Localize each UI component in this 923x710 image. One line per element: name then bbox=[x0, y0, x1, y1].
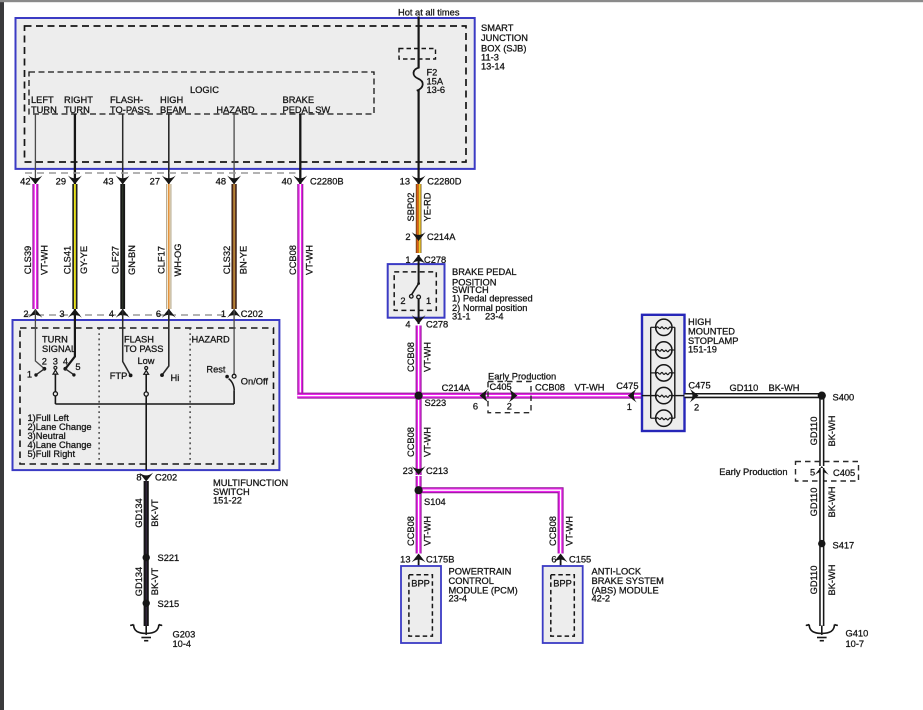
wire into turn signal contact 2 bbox=[35, 309, 44, 369]
connector C213 pin 23 bbox=[403, 466, 449, 476]
connector C155 pin 6 bbox=[551, 554, 591, 575]
svg-text:GN-BN: GN-BN bbox=[127, 245, 137, 275]
splice S104 bbox=[415, 486, 446, 507]
FTP contact bbox=[110, 371, 133, 381]
svg-text:4: 4 bbox=[405, 320, 410, 330]
brake pedal position switch box bbox=[388, 264, 445, 318]
svg-text:CCB08: CCB08 bbox=[406, 427, 416, 457]
svg-text:C202: C202 bbox=[241, 309, 263, 319]
connector C2280B pin 43 bbox=[103, 176, 129, 187]
svg-text:Hot at all times: Hot at all times bbox=[398, 8, 460, 18]
ground G203 bbox=[130, 625, 195, 650]
svg-text:6: 6 bbox=[473, 401, 478, 411]
svg-text:151-19: 151-19 bbox=[688, 345, 717, 355]
svg-text:CCB08: CCB08 bbox=[288, 245, 298, 275]
connector C278 pin 1 bbox=[405, 255, 446, 265]
connector C278 pin 4 bbox=[405, 315, 448, 329]
svg-text:VT-WH: VT-WH bbox=[422, 342, 432, 372]
connector C405 early production box bbox=[488, 372, 556, 413]
wire GD110 BK-WH C405 to S417 bbox=[809, 468, 837, 544]
svg-text:23-4: 23-4 bbox=[485, 312, 504, 322]
BPP switch arm and contacts bbox=[400, 282, 431, 324]
svg-text:23-4: 23-4 bbox=[449, 594, 468, 604]
svg-text:27: 27 bbox=[150, 177, 160, 187]
svg-text:C214A: C214A bbox=[442, 383, 471, 393]
svg-text:LEFT: LEFT bbox=[31, 95, 54, 105]
connector C2280B pin 27 bbox=[150, 176, 176, 187]
stoplamp name label bbox=[688, 317, 738, 355]
svg-text:40: 40 bbox=[282, 177, 292, 187]
connector C405 pin 2 arrow bbox=[509, 389, 518, 403]
svg-text:VT-WH: VT-WH bbox=[422, 516, 432, 546]
connector C214A pin 2 bbox=[405, 232, 456, 242]
svg-text:CCB08: CCB08 bbox=[406, 516, 416, 546]
svg-text:CONTROL: CONTROL bbox=[449, 576, 494, 586]
svg-text:1) Pedal depressed: 1) Pedal depressed bbox=[452, 294, 533, 304]
svg-text:On/Off: On/Off bbox=[241, 376, 269, 386]
wire CCB08 VT-WH brake pedal sw bbox=[288, 184, 314, 393]
svg-text:GD110: GD110 bbox=[809, 566, 819, 595]
svg-text:CCB08: CCB08 bbox=[535, 382, 565, 392]
wire hot feed into SJB bbox=[418, 17, 420, 68]
wire GD110 BK-WH S417 to ground bbox=[809, 544, 837, 626]
svg-text:43: 43 bbox=[103, 177, 113, 187]
svg-text:CCB08: CCB08 bbox=[548, 516, 558, 546]
svg-text:TO-PASS: TO-PASS bbox=[110, 105, 150, 115]
svg-text:C405: C405 bbox=[833, 468, 855, 478]
svg-text:S417: S417 bbox=[833, 541, 855, 551]
connector C2280B pin 42 bbox=[20, 176, 42, 187]
ABS name label bbox=[592, 567, 664, 604]
wire fuse output bbox=[418, 90, 420, 184]
connector C202 pin 4 bbox=[109, 309, 130, 319]
svg-text:48: 48 bbox=[216, 177, 226, 187]
wire GD110 BK-WH S400 down to C405 bbox=[809, 396, 837, 466]
svg-text:C278: C278 bbox=[426, 320, 448, 330]
wire CCB08 VT-WH BPP to S223 bbox=[406, 326, 433, 393]
wire CLF17 WH-OG high beam bbox=[156, 184, 182, 309]
svg-text:23: 23 bbox=[403, 466, 413, 476]
svg-text:BN-YE: BN-YE bbox=[238, 246, 248, 274]
svg-text:HAZARD: HAZARD bbox=[192, 334, 231, 344]
connector C475 pin 2 bbox=[688, 381, 710, 413]
wire CLF27 GN-BN flash-to-pass bbox=[110, 184, 136, 309]
connector C405 pin 5 early production bbox=[719, 462, 858, 482]
stoplamp bulb 2 bbox=[651, 342, 675, 358]
connector C2280B pin 29 bbox=[56, 176, 82, 187]
Hi contact bbox=[160, 373, 179, 383]
svg-text:WH-OG: WH-OG bbox=[173, 243, 183, 276]
wire flash-to-pass inside SJB bbox=[122, 114, 124, 184]
svg-text:PEDAL SW: PEDAL SW bbox=[283, 105, 331, 115]
connector C2280B pin 40 bbox=[282, 176, 344, 187]
splice S221 bbox=[143, 553, 180, 563]
svg-text:BRAKE: BRAKE bbox=[283, 95, 315, 105]
connector C202 dashed line bbox=[25, 314, 238, 316]
svg-text:1: 1 bbox=[426, 296, 431, 306]
svg-text:GY-YE: GY-YE bbox=[79, 246, 89, 274]
connector C175B pin 13 bbox=[400, 554, 454, 575]
svg-text:13: 13 bbox=[400, 555, 410, 565]
svg-text:TURN: TURN bbox=[31, 105, 57, 115]
svg-text:YE-RD: YE-RD bbox=[422, 192, 432, 221]
svg-text:HIGH: HIGH bbox=[160, 95, 183, 105]
svg-text:10-7: 10-7 bbox=[846, 639, 865, 649]
flash to pass pole Low bbox=[137, 356, 154, 470]
wire hazard inside SJB bbox=[233, 114, 235, 184]
svg-text:GD110: GD110 bbox=[809, 417, 819, 446]
svg-text:4: 4 bbox=[109, 309, 114, 319]
wire into BPP switch bbox=[418, 255, 420, 284]
svg-text:CLS32: CLS32 bbox=[222, 246, 232, 274]
svg-text:FTP: FTP bbox=[110, 371, 128, 381]
svg-text:CLS39: CLS39 bbox=[23, 246, 33, 274]
stoplamp bulb 3 bbox=[651, 365, 675, 381]
connector dashed block above fuse bbox=[399, 49, 436, 60]
svg-text:BPP: BPP bbox=[411, 579, 430, 589]
svg-text:SBP02: SBP02 bbox=[406, 193, 416, 222]
hazard switch contacts bbox=[206, 364, 268, 404]
svg-text:3: 3 bbox=[59, 309, 64, 319]
svg-text:RIGHT: RIGHT bbox=[64, 95, 93, 105]
svg-text:42: 42 bbox=[20, 177, 30, 187]
connector C202 pin 1 bbox=[221, 309, 263, 319]
multifunction switch name label bbox=[213, 478, 288, 506]
powertrain control module box bbox=[401, 566, 441, 643]
svg-text:JUNCTION: JUNCTION bbox=[481, 33, 528, 43]
svg-text:HIGH: HIGH bbox=[688, 317, 711, 327]
svg-text:FLASH-: FLASH- bbox=[110, 95, 143, 105]
SJB name label bbox=[481, 23, 528, 71]
svg-text:2: 2 bbox=[42, 356, 47, 366]
svg-text:VT-WH: VT-WH bbox=[304, 245, 314, 275]
stoplamp bulb 1 bbox=[651, 319, 675, 335]
wire brake pedal sw inside SJB bbox=[299, 114, 301, 184]
fuse F2 15A bbox=[414, 68, 446, 96]
connector C475 pin 1 bbox=[616, 381, 638, 412]
svg-text:2: 2 bbox=[400, 296, 405, 306]
svg-text:29: 29 bbox=[56, 177, 66, 187]
connector C214A pin 6 bbox=[442, 383, 489, 411]
wire C213 to S104 bbox=[416, 476, 422, 490]
turn signal pole arm bbox=[53, 366, 58, 404]
svg-text:C2280B: C2280B bbox=[310, 177, 344, 187]
svg-text:C213: C213 bbox=[426, 466, 448, 476]
splice S215 bbox=[143, 599, 180, 609]
svg-text:C475: C475 bbox=[688, 381, 710, 391]
svg-text:S215: S215 bbox=[158, 599, 180, 609]
wire GD110 BK-WH stoplamp to S400 bbox=[685, 383, 822, 396]
svg-text:SIGNAL: SIGNAL bbox=[42, 344, 76, 354]
svg-text:CLF17: CLF17 bbox=[156, 246, 166, 274]
wire CCB08 VT-WH S223 to C213 bbox=[406, 396, 433, 475]
svg-text:BRAKE PEDAL: BRAKE PEDAL bbox=[452, 267, 517, 277]
splice S223 bbox=[415, 392, 447, 409]
svg-text:13: 13 bbox=[400, 177, 410, 187]
svg-text:Low: Low bbox=[137, 356, 154, 366]
svg-text:1: 1 bbox=[27, 369, 32, 379]
PCM name label bbox=[449, 567, 518, 604]
svg-text:GD134: GD134 bbox=[134, 498, 144, 527]
BPP switch name label bbox=[452, 267, 533, 322]
svg-text:S400: S400 bbox=[833, 393, 855, 403]
svg-text:CCB08: CCB08 bbox=[406, 342, 416, 372]
svg-text:VT-WH: VT-WH bbox=[564, 516, 574, 546]
svg-text:2: 2 bbox=[405, 232, 410, 242]
svg-text:42-2: 42-2 bbox=[592, 594, 611, 604]
svg-text:13-14: 13-14 bbox=[481, 61, 505, 71]
svg-text:151-22: 151-22 bbox=[213, 496, 242, 506]
svg-text:1: 1 bbox=[221, 309, 226, 319]
svg-text:Rest: Rest bbox=[206, 364, 226, 374]
wire CCB08 VT-WH S104 to PCM bbox=[406, 490, 433, 553]
connector C202 pin 2 bbox=[23, 309, 42, 319]
svg-text:TURN: TURN bbox=[64, 105, 90, 115]
svg-text:SMART: SMART bbox=[481, 23, 514, 33]
connector C2280D pin 13 bbox=[400, 176, 462, 187]
svg-text:VT-WH: VT-WH bbox=[575, 382, 605, 392]
logic block inside SJB bbox=[29, 72, 374, 115]
connector C202 pin 3 bbox=[59, 309, 81, 319]
svg-text:C2280D: C2280D bbox=[427, 177, 461, 187]
wire into turn signal contact 4 bbox=[65, 309, 75, 369]
svg-text:2: 2 bbox=[23, 309, 28, 319]
splice S417 bbox=[818, 540, 854, 551]
svg-text:VT-WH: VT-WH bbox=[422, 427, 432, 457]
high mounted stoplamp box bbox=[642, 315, 685, 431]
wire CCB08 VT-WH S104 branch to ABS bbox=[419, 490, 575, 553]
svg-text:6: 6 bbox=[156, 309, 161, 319]
wire into hazard on/off contact bbox=[233, 309, 235, 374]
smart junction box U-SJB outline bbox=[16, 18, 475, 169]
wire label CCB08 VT-WH horizontal bbox=[535, 382, 604, 392]
ground G410 bbox=[806, 625, 868, 650]
svg-text:BK-WH: BK-WH bbox=[827, 416, 837, 447]
svg-text:4: 4 bbox=[63, 356, 68, 366]
wire CLS41 GY-YE right turn bbox=[63, 184, 89, 309]
svg-text:TO PASS: TO PASS bbox=[124, 344, 163, 354]
svg-text:3: 3 bbox=[53, 356, 58, 366]
svg-text:BPP: BPP bbox=[553, 579, 572, 589]
svg-text:5: 5 bbox=[75, 362, 80, 372]
wire GD134 BK-VT ground leg bbox=[134, 481, 160, 626]
svg-text:2: 2 bbox=[694, 402, 699, 412]
svg-text:VT-WH: VT-WH bbox=[40, 245, 50, 275]
svg-text:2: 2 bbox=[507, 401, 512, 411]
splice S400 bbox=[818, 392, 855, 403]
wire SBP02 YE-RD fuse to BPP switch bbox=[406, 184, 433, 253]
svg-text:Early Production: Early Production bbox=[719, 467, 787, 477]
svg-text:FLASH: FLASH bbox=[124, 335, 154, 345]
svg-text:10-4: 10-4 bbox=[173, 639, 192, 649]
turn signal position legend bbox=[28, 413, 92, 459]
svg-text:G203: G203 bbox=[173, 630, 196, 640]
wire into FTP contact bbox=[123, 309, 131, 375]
anti-lock brake module box bbox=[543, 566, 583, 643]
svg-text:C202: C202 bbox=[155, 473, 177, 483]
scan edge line top bbox=[0, 0, 923, 2]
wire right turn inside SJB bbox=[74, 114, 76, 184]
svg-text:G410: G410 bbox=[846, 629, 869, 639]
connector C202 pin 8 bbox=[136, 473, 177, 483]
svg-text:BK-WH: BK-WH bbox=[827, 487, 837, 518]
connector C2280B pin 48 bbox=[216, 176, 241, 187]
svg-text:S223: S223 bbox=[425, 398, 447, 408]
svg-text:C405: C405 bbox=[490, 382, 512, 392]
svg-text:Hi: Hi bbox=[171, 373, 180, 383]
svg-text:ANTI-LOCK: ANTI-LOCK bbox=[592, 567, 642, 577]
svg-text:5)Full Right: 5)Full Right bbox=[28, 449, 76, 459]
stoplamp bulb 5 bbox=[651, 410, 675, 426]
svg-text:BK-WH: BK-WH bbox=[827, 565, 837, 596]
svg-text:CLS41: CLS41 bbox=[63, 246, 73, 274]
svg-text:C175B: C175B bbox=[426, 555, 454, 565]
svg-text:6: 6 bbox=[551, 555, 556, 565]
svg-text:TURN: TURN bbox=[42, 334, 68, 344]
wire into Hi contact bbox=[162, 309, 169, 375]
svg-text:C475: C475 bbox=[616, 381, 638, 391]
wire CLS32 BN-YE hazard bbox=[222, 184, 248, 309]
wire VT-WH horizontal brake feed bbox=[297, 393, 642, 399]
connector C2280B dashed line bbox=[25, 172, 296, 174]
svg-text:1: 1 bbox=[627, 402, 632, 412]
svg-text:31-1: 31-1 bbox=[452, 312, 471, 322]
multifunction switch box bbox=[13, 320, 280, 470]
turn signal switch contacts bbox=[27, 356, 81, 379]
scan edge bar left bbox=[0, 0, 4, 710]
svg-text:MOUNTED: MOUNTED bbox=[688, 327, 735, 337]
svg-text:LOGIC: LOGIC bbox=[190, 85, 219, 95]
wire left turn inside SJB bbox=[34, 114, 36, 184]
svg-text:S104: S104 bbox=[424, 497, 446, 507]
svg-text:8: 8 bbox=[136, 473, 141, 483]
svg-text:GD110: GD110 bbox=[809, 488, 819, 517]
wire high beam inside SJB bbox=[168, 114, 170, 184]
wire turn signal return to hazard bbox=[55, 403, 234, 405]
svg-text:GD134: GD134 bbox=[134, 567, 144, 596]
svg-text:HAZARD: HAZARD bbox=[216, 105, 255, 115]
connector C202 pin 6 bbox=[156, 309, 176, 319]
svg-text:BK-WH: BK-WH bbox=[769, 383, 800, 393]
svg-text:C155: C155 bbox=[569, 555, 591, 565]
svg-text:GD110: GD110 bbox=[730, 383, 759, 393]
svg-text:Early Production: Early Production bbox=[488, 372, 556, 382]
svg-text:BK-VT: BK-VT bbox=[150, 567, 160, 595]
svg-text:CLF27: CLF27 bbox=[110, 246, 120, 274]
svg-text:5: 5 bbox=[810, 468, 815, 478]
svg-text:S221: S221 bbox=[158, 553, 180, 563]
svg-text:C214A: C214A bbox=[427, 232, 456, 242]
wire CLS39 VT-WH left turn bbox=[23, 184, 50, 309]
svg-text:BEAM: BEAM bbox=[160, 105, 186, 115]
svg-text:BRAKE SYSTEM: BRAKE SYSTEM bbox=[592, 576, 664, 586]
svg-text:POWERTRAIN: POWERTRAIN bbox=[449, 567, 512, 577]
svg-text:BK-VT: BK-VT bbox=[150, 499, 160, 527]
stoplamp bulb 4 bbox=[656, 387, 672, 403]
svg-text:13-6: 13-6 bbox=[427, 85, 446, 95]
